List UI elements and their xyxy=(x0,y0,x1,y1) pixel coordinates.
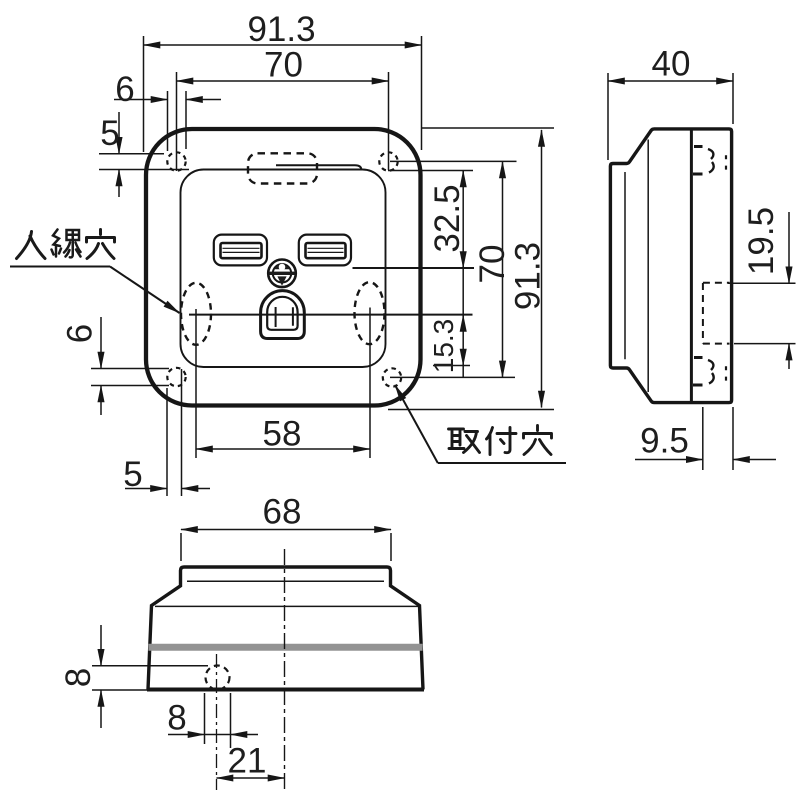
kanji label toritsuke-ana (mounting hole) xyxy=(449,426,552,455)
mounting hole top-left (dashed circle) xyxy=(167,152,185,170)
centerline through wire entry ovals xyxy=(189,314,473,316)
leader for toritsuke-ana label xyxy=(395,385,438,463)
dim 32.5 arrows xyxy=(462,171,464,185)
dim 91.3 top extension lines xyxy=(144,36,422,152)
svg-text:9.5: 9.5 xyxy=(640,422,689,461)
svg-text:21: 21 xyxy=(228,742,267,781)
kanji ANA xyxy=(87,230,115,259)
mounting hole bottom-right (dashed circle) xyxy=(383,368,401,386)
underline for toritsuke-ana label xyxy=(438,462,566,464)
wire entry oval left (dashed) xyxy=(181,283,211,345)
leader for nyusen-ana label xyxy=(10,267,566,464)
dim 8 left arrows xyxy=(100,625,102,666)
bottom gray band xyxy=(148,644,422,651)
side hidden mounting hole bottom (dashed) xyxy=(693,358,726,386)
kanji TORI xyxy=(449,429,480,453)
knockout dashed rounded rect (top center) xyxy=(248,153,317,183)
dim 68 extension lines xyxy=(181,533,391,561)
dim 70 top extension lines xyxy=(177,72,389,171)
side plate joint line xyxy=(690,130,693,402)
svg-text:5: 5 xyxy=(123,455,142,494)
bottom main centerline (dash-dot) xyxy=(284,549,286,790)
svg-text:5: 5 xyxy=(100,114,119,153)
dim 6 left extension lines xyxy=(91,369,169,386)
dim 68 line xyxy=(181,529,391,531)
svg-text:8: 8 xyxy=(167,699,186,738)
screw horizontal slot bar xyxy=(269,272,296,275)
dim 32.5 extension line top xyxy=(388,170,473,172)
kanji TSUKE xyxy=(487,428,517,455)
svg-text:32.5: 32.5 xyxy=(428,184,467,252)
blade slot left inner xyxy=(221,243,262,258)
svg-text:68: 68 xyxy=(263,493,302,532)
dim 8 bottom extension lines xyxy=(205,693,231,748)
knockout solid edge line xyxy=(276,165,362,170)
dim 19.5 arrows xyxy=(788,212,790,283)
dim 70 right extension lines xyxy=(390,161,517,377)
dim 5 top-left extension lines xyxy=(99,154,189,170)
side inner edge line 1 xyxy=(647,140,649,393)
svg-text:6: 6 xyxy=(61,324,100,343)
bottom body outline xyxy=(148,567,423,690)
bottom hole centerline (dash-dot) xyxy=(216,654,218,790)
outlet plate outer outline xyxy=(146,129,421,406)
side hidden mounting hole top (dashed) xyxy=(693,147,726,175)
BOTTOM VIEW DIMENSIONS xyxy=(92,530,391,779)
svg-text:40: 40 xyxy=(652,45,691,84)
dim 6 top arrows xyxy=(114,99,168,101)
screw outer circle xyxy=(268,260,296,288)
svg-text:8: 8 xyxy=(59,668,98,687)
screw cap white notch xyxy=(279,264,286,271)
dim 5 top-left arrows xyxy=(118,112,120,154)
svg-text:15.3: 15.3 xyxy=(428,319,459,374)
BOTTOM VIEW GROUP xyxy=(147,549,424,790)
svg-text:91.3: 91.3 xyxy=(247,10,315,49)
ground hole outer arch xyxy=(261,291,305,339)
dim 9.5 arrows xyxy=(635,459,703,461)
side hidden wire-entry channel (dashed) xyxy=(703,283,730,344)
svg-text:58: 58 xyxy=(263,415,302,454)
wire entry oval right (dashed) xyxy=(355,282,385,344)
dim 91.3 right extension lines xyxy=(388,128,554,410)
bottom body bottom edge xyxy=(147,688,424,692)
blade slot right inner lines xyxy=(308,248,344,252)
FRONT VIEW GROUP xyxy=(146,129,474,406)
blade slot right inner xyxy=(306,243,346,258)
dim 5 bottom extension lines xyxy=(167,369,182,496)
mounting hole top-right (dashed circle) xyxy=(379,152,397,170)
side body outline xyxy=(610,129,731,403)
bottom under-lip line xyxy=(187,580,384,582)
dim 6 left arrows xyxy=(100,317,102,369)
side inner edge line 2 xyxy=(624,172,626,359)
dim 8 bottom arrows xyxy=(168,734,205,736)
dim 91.3 top line xyxy=(144,44,422,46)
screw top dark cap xyxy=(274,265,289,269)
kanji SEN xyxy=(52,230,81,258)
blade slot right outer xyxy=(299,235,351,266)
FRONT VIEW DIMENSIONS xyxy=(91,36,554,496)
kanji label nyusen-ana (wire entry hole) xyxy=(17,230,115,259)
SIDE VIEW DIMENSIONS xyxy=(608,73,796,470)
dim 58 line xyxy=(196,448,370,450)
outlet inner face outline xyxy=(181,170,386,368)
dim 70 right line xyxy=(502,161,504,377)
svg-text:6: 6 xyxy=(115,70,134,109)
dim 19.5 extension lines xyxy=(728,283,796,343)
ground hole inner ticks xyxy=(276,307,293,327)
screw inner circle xyxy=(273,264,291,282)
svg-text:19.5: 19.5 xyxy=(742,207,781,275)
dim 15.3 extension line bottom xyxy=(433,365,470,367)
bottom shoulder line xyxy=(155,605,420,607)
dim 9.5 extension lines xyxy=(703,407,733,470)
screw bottom wedge xyxy=(277,276,286,285)
dim 6 top extension lines xyxy=(168,91,187,151)
blade slot left outer xyxy=(214,235,267,266)
mounting hole bottom-left (dashed circle) xyxy=(167,368,185,386)
dim 32.5 and 15.3 shared dimension column xyxy=(462,171,464,378)
dim 40 line xyxy=(608,80,733,82)
svg-text:91.3: 91.3 xyxy=(509,242,548,310)
SIDE VIEW GROUP xyxy=(610,129,731,403)
svg-text:70: 70 xyxy=(473,245,512,284)
bottom hidden hole (dashed circle) xyxy=(206,666,230,690)
dim 40 extension lines xyxy=(608,73,733,160)
dim 70 top line xyxy=(177,80,389,82)
kanji NYU xyxy=(17,232,46,259)
ground hole inner arch xyxy=(267,297,297,330)
dim 21 line xyxy=(217,777,285,779)
dim 15.3 arrows xyxy=(462,315,464,329)
dim 5 bottom arrows xyxy=(125,488,167,490)
dim 91.3 right line xyxy=(541,130,543,408)
svg-text:70: 70 xyxy=(264,46,303,85)
dim 8 left extension lines xyxy=(92,666,208,690)
kanji ANA2 xyxy=(524,426,552,455)
centerline through slots/screw xyxy=(353,267,475,269)
dim 58 extension lines xyxy=(196,308,370,459)
blade slot left inner lines xyxy=(223,248,260,252)
